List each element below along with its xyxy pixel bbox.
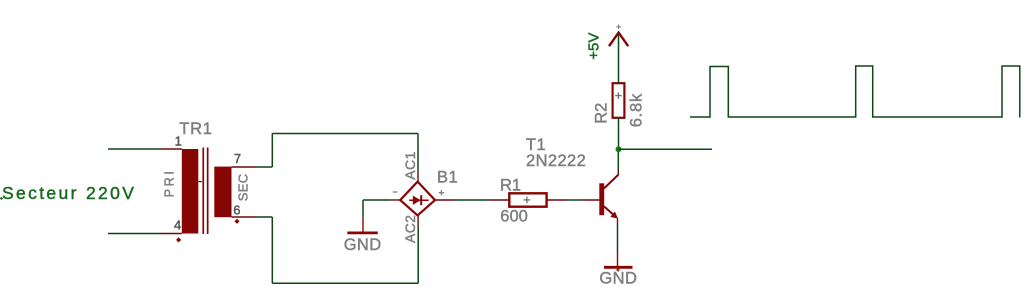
transformer TR1 core (202, 148, 208, 235)
wire bottom rail (272, 282, 418, 284)
wire mains top (108, 148, 182, 150)
wire bridge right lead (435, 199, 509, 201)
wire down to bridge AC1 (417, 134, 419, 183)
svg-text:R2: R2 (592, 103, 610, 124)
resistor R2 plus mark (615, 92, 622, 99)
waveform output pulses (690, 66, 1020, 118)
svg-text:AC1: AC1 (402, 151, 418, 179)
wire pin6 stub (232, 216, 273, 218)
wire riser up (271, 134, 273, 168)
wire R1 to base (547, 199, 600, 201)
svg-text:Secteur 220V: Secteur 220V (2, 183, 136, 203)
ground GND2 (604, 251, 633, 272)
wire pin7 stub (232, 166, 273, 168)
bridge rectifier B1 body (400, 182, 435, 216)
wire bridge left lead (363, 199, 400, 201)
transistor T1 base bar (599, 183, 604, 215)
bridge minus mark (393, 191, 398, 193)
svg-text:PRI: PRI (162, 169, 176, 198)
wire emitter down (617, 219, 619, 251)
wire +5V to R2 (618, 34, 620, 83)
svg-text:600: 600 (500, 208, 528, 226)
svg-text:B1: B1 (437, 168, 458, 186)
wire riser down (271, 217, 273, 283)
svg-text:GND: GND (344, 236, 382, 254)
pin 4 marker diamond (176, 237, 181, 242)
svg-text:GND: GND (599, 270, 637, 287)
svg-text:1: 1 (175, 133, 182, 148)
wire top rail (272, 133, 418, 135)
svg-text:SEC: SEC (235, 174, 250, 202)
svg-text:+5V: +5V (585, 33, 602, 60)
wire mains bottom (108, 233, 182, 235)
wire up to bridge AC2 (417, 216, 419, 284)
resistor R1 body (509, 193, 546, 206)
wire gnd drop (362, 200, 364, 217)
pin 6 marker diamond (234, 219, 239, 224)
text origin mark (0, 197, 3, 200)
transformer TR1 secondary winding (214, 167, 231, 218)
transformer TR1 core tick (199, 181, 202, 183)
node collector junction (616, 146, 622, 152)
bridge plus mark (439, 190, 444, 195)
wire R2 to node (618, 118, 620, 150)
supply +5V symbol (609, 25, 628, 47)
transistor T1 emitter lead (604, 206, 615, 215)
transistor T1 collector lead (604, 175, 619, 189)
ground GND1 (347, 217, 378, 233)
svg-text:6.8k: 6.8k (628, 93, 646, 127)
resistor R2 body (613, 83, 625, 118)
wire collector up (617, 149, 619, 175)
svg-text:2N2222: 2N2222 (526, 152, 586, 170)
transistor T1 emitter arrow (610, 212, 618, 219)
svg-text:7: 7 (234, 151, 241, 166)
svg-text:TR1: TR1 (179, 120, 213, 138)
svg-text:R1: R1 (500, 176, 521, 194)
svg-text:AC2: AC2 (402, 215, 418, 243)
svg-text:6: 6 (233, 202, 240, 217)
svg-text:4: 4 (174, 218, 181, 233)
transformer TR1 primary winding (182, 149, 199, 234)
resistor R1 plus mark (524, 197, 531, 204)
bridge B1 diode symbol (409, 195, 428, 205)
wire output (619, 148, 713, 150)
